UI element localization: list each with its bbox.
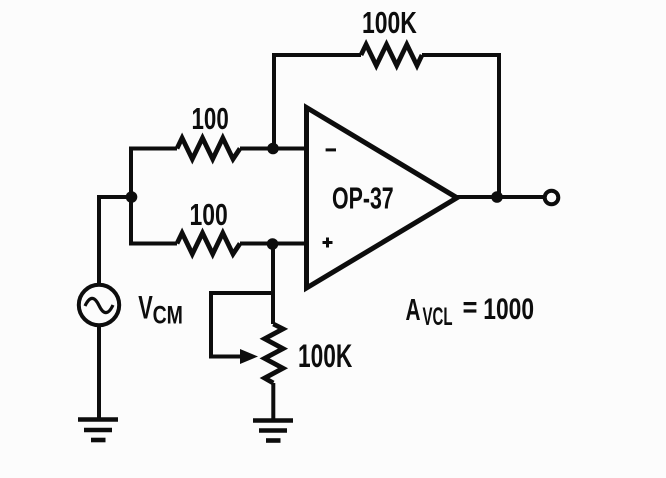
wire: top input left segment (131, 147, 177, 151)
svg-text:V: V (138, 289, 153, 325)
wire: feedback loop right vertical (497, 53, 501, 197)
sine symbol inside VCM (85, 298, 113, 312)
svg-text:100: 100 (192, 101, 229, 135)
wire: feedback loop top-right horizontal (422, 53, 501, 57)
resistor R3 100 (to non-inverting input) (177, 233, 240, 254)
ground (under pot) (253, 421, 293, 441)
label AVCL = 1000 (406, 292, 534, 331)
pot wiper arrowhead (240, 349, 258, 364)
wire: Vcm to ground (97, 327, 101, 420)
node D (output junction) (491, 191, 503, 203)
svg-text:1000: 1000 (483, 292, 534, 326)
wire: pot bottom to ground (271, 383, 275, 420)
resistor R1 100K (feedback) (361, 45, 422, 66)
svg-text:VCL: VCL (423, 303, 453, 331)
wire: bottom input left segment (131, 242, 177, 246)
wire: output (457, 195, 543, 199)
resistor R2 100 (to inverting input) (177, 138, 240, 159)
wire: feedback loop left vertical (272, 55, 276, 149)
svg-text:CM: CM (153, 301, 183, 329)
node A (common-mode input junction) (126, 191, 138, 203)
svg-text:100K: 100K (298, 338, 352, 374)
wire: pot top (from non-inverting junction) (271, 244, 275, 324)
svg-text:100: 100 (190, 197, 228, 232)
node C (non-inverting input junction) (267, 238, 279, 250)
wire: feedback loop top-left horizontal (272, 53, 361, 57)
op-amp U1 OP-37 (307, 108, 458, 289)
svg-text:OP-37: OP-37 (332, 181, 394, 216)
source VCM (sine source) (79, 285, 119, 325)
pin label: inverting input minus (326, 148, 336, 151)
wire: jog to Vcm source (99, 195, 133, 284)
node B (inverting input junction) (267, 143, 279, 155)
wire: bottom input right segment (240, 242, 306, 246)
wire: left vertical joining the two input resistors (129, 147, 133, 246)
equals sign (464, 302, 477, 305)
svg-text:100K: 100K (362, 5, 417, 40)
wire: pot wiper bracket (209, 291, 273, 357)
potentiometer R4 100K (vertical zigzag) (265, 324, 283, 383)
svg-text:A: A (406, 292, 421, 327)
output terminal (545, 191, 559, 205)
wire: top input right segment (240, 147, 306, 151)
pin label: non-inverting input plus (323, 238, 333, 248)
ground (under VCM) (78, 420, 118, 441)
